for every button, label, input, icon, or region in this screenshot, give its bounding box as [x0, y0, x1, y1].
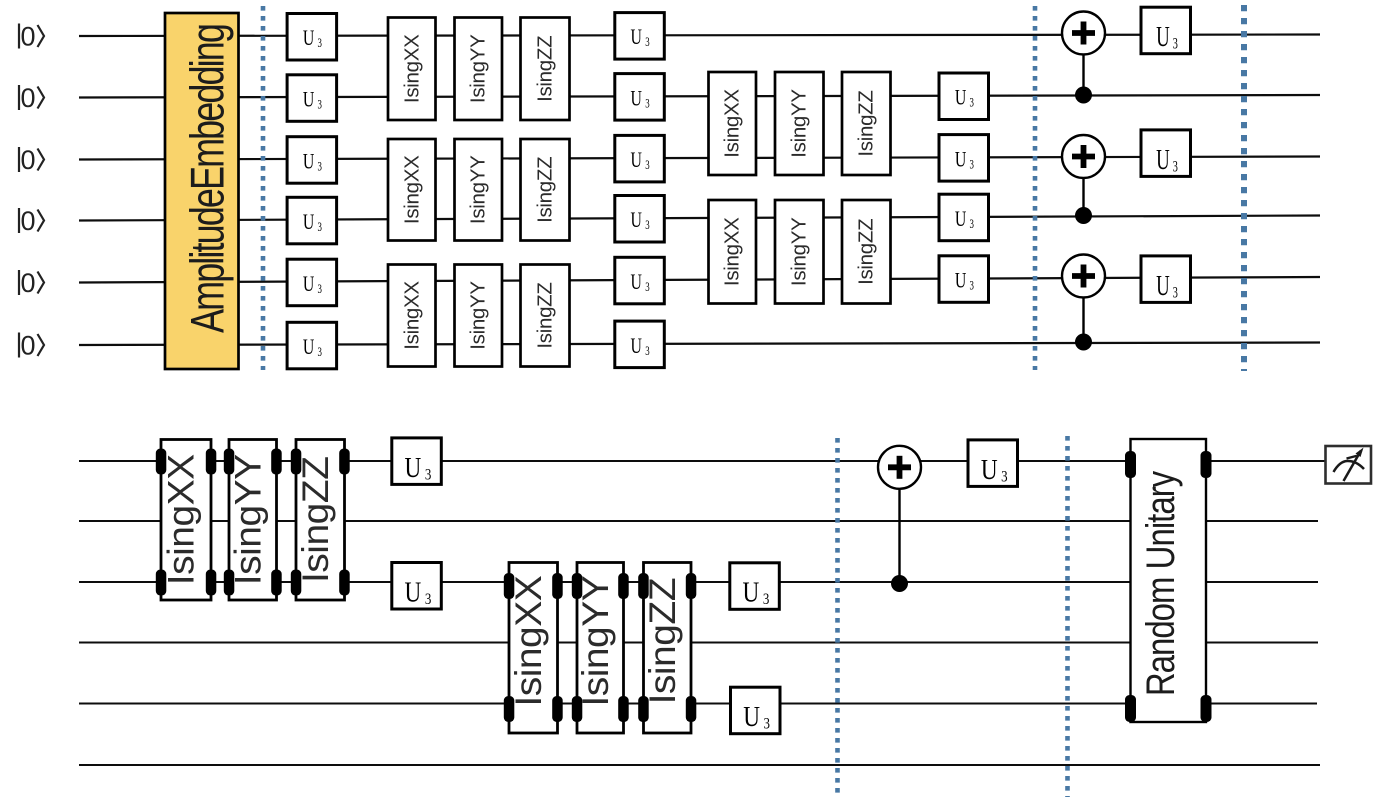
- svg-text:3: 3: [318, 160, 322, 174]
- gate IsingXX q0-q1 layer1 (top): [388, 18, 436, 121]
- svg-text:IsingXX: IsingXX: [400, 34, 423, 103]
- svg-text:U: U: [303, 211, 315, 235]
- gate U3 q2 after group1 (bottom): [392, 563, 442, 610]
- svg-text:U: U: [955, 207, 967, 231]
- wire q1 (top): [79, 95, 1320, 98]
- gate U3 q3 col3 (top): [939, 194, 989, 241]
- svg-text:IsingZZ: IsingZZ: [296, 456, 337, 583]
- svg-text:U: U: [631, 334, 643, 358]
- svg-text:IsingZZ: IsingZZ: [643, 578, 684, 705]
- wire q2 (bottom): [79, 581, 1318, 583]
- svg-text:3: 3: [318, 221, 322, 235]
- svg-text:3: 3: [645, 281, 649, 295]
- CNOT target q4 control q5 (top): [1062, 255, 1105, 351]
- svg-text:3: 3: [645, 36, 649, 50]
- barrier 1 (bottom): [835, 438, 840, 796]
- svg-text:IsingYY: IsingYY: [788, 217, 811, 286]
- svg-text:U: U: [955, 86, 967, 110]
- gate U3 q5 col1 (top): [287, 322, 337, 369]
- gate IsingZZ q0-q2 group1 (bottom): [291, 440, 350, 601]
- barrier 2 (top): [1033, 6, 1038, 370]
- svg-text:3: 3: [970, 158, 974, 172]
- gate U3 q1 col1 (top): [287, 75, 337, 122]
- wire q3 (top): [79, 216, 1320, 221]
- svg-text:U: U: [981, 453, 998, 485]
- svg-text:3: 3: [645, 97, 649, 111]
- gate U3 q4 col1 (top): [287, 259, 337, 306]
- svg-text:3: 3: [970, 279, 974, 293]
- svg-text:3: 3: [763, 591, 769, 609]
- svg-text:U: U: [303, 88, 315, 112]
- barrier 3 (top): [1241, 5, 1247, 371]
- svg-text:3: 3: [764, 715, 770, 733]
- svg-text:3: 3: [425, 591, 431, 609]
- svg-text:IsingXX: IsingXX: [721, 217, 744, 286]
- gate IsingXX q4-q5 layer1 (top): [388, 265, 436, 367]
- svg-text:U: U: [743, 701, 760, 733]
- svg-text:IsingZZ: IsingZZ: [855, 90, 878, 156]
- svg-text:IsingXX: IsingXX: [161, 454, 202, 585]
- svg-text:U: U: [405, 451, 422, 483]
- barrier 2 (bottom): [1065, 436, 1070, 797]
- wire q3 (bottom): [79, 641, 1318, 643]
- gate IsingZZ q1-q2 layer2 (top): [842, 72, 891, 175]
- svg-text:IsingZZ: IsingZZ: [534, 157, 557, 223]
- svg-text:3: 3: [645, 159, 649, 173]
- CNOT target q0 control q2 (bottom): [878, 446, 921, 592]
- svg-text:U: U: [631, 271, 643, 295]
- svg-text:U: U: [303, 27, 315, 51]
- svg-text:U: U: [631, 26, 643, 50]
- svg-text:IsingZZ: IsingZZ: [855, 219, 878, 285]
- gate IsingYY q4-q5 layer1 (top): [455, 265, 503, 367]
- wire q0 (top): [79, 35, 1320, 37]
- svg-text:0: 0: [20, 206, 35, 236]
- gate U3 q0 col2 (top): [615, 13, 665, 60]
- RandomUnitary box q0-q4 (bottom): [1125, 439, 1212, 722]
- ket |0> label qubit 0 (top): [19, 22, 44, 52]
- svg-text:3: 3: [318, 283, 322, 297]
- gate U3 q3 col1 (top): [287, 197, 337, 244]
- gate IsingXX q3-q4 layer2 (top): [709, 200, 757, 304]
- gate IsingZZ q2-q4 group2 (bottom): [638, 563, 696, 734]
- svg-text:U: U: [955, 269, 967, 293]
- svg-text:U: U: [631, 209, 643, 233]
- ket |0> label qubit 3 (top): [19, 206, 44, 236]
- svg-text:0: 0: [20, 145, 35, 175]
- gate U3 q0 after CNOT (bottom): [968, 440, 1018, 487]
- gate IsingYY q2-q4 group2 (bottom): [572, 563, 629, 734]
- gate IsingYY q1-q2 layer2 (top): [775, 72, 824, 175]
- svg-text:IsingYY: IsingYY: [467, 155, 490, 224]
- gate IsingYY q3-q4 layer2 (top): [775, 200, 824, 304]
- svg-text:3: 3: [1173, 283, 1178, 301]
- wire q5 (bottom): [79, 764, 1320, 766]
- svg-text:IsingXX: IsingXX: [400, 155, 423, 224]
- gate IsingXX q2-q4 group2 (bottom): [504, 563, 563, 734]
- svg-text:Random Unitary: Random Unitary: [1138, 470, 1183, 696]
- svg-text:U: U: [955, 148, 967, 172]
- svg-text:U: U: [1156, 21, 1170, 53]
- svg-text:3: 3: [1001, 468, 1007, 486]
- barrier 1 (top): [261, 6, 266, 370]
- svg-text:0: 0: [20, 268, 35, 298]
- svg-text:3: 3: [318, 346, 322, 360]
- gate U3 q2 col4 (top): [1141, 130, 1191, 177]
- svg-text:U: U: [303, 150, 315, 174]
- svg-text:U: U: [405, 576, 422, 608]
- svg-text:IsingYY: IsingYY: [467, 34, 490, 103]
- wire q5 (top): [79, 343, 1320, 346]
- measurement q0 (bottom): [1326, 446, 1372, 484]
- svg-text:IsingYY: IsingYY: [228, 454, 269, 585]
- svg-text:3: 3: [970, 96, 974, 110]
- ket |0> label qubit 2 (top): [19, 145, 44, 175]
- gate U3 q4 col2 (top): [615, 257, 665, 304]
- gate IsingZZ q3-q4 layer2 (top): [842, 200, 891, 304]
- AmplitudeEmbedding box (top): [165, 13, 239, 369]
- CNOT target q2 control q3 (top): [1062, 135, 1105, 224]
- svg-text:IsingXX: IsingXX: [721, 89, 744, 158]
- svg-text:3: 3: [318, 98, 322, 112]
- gate IsingYY q0-q1 layer1 (top): [455, 18, 503, 121]
- gate U3 q2 col3 (top): [939, 135, 989, 182]
- gate U3 q2 col1 (top): [287, 137, 337, 184]
- svg-text:3: 3: [318, 37, 322, 51]
- gate IsingZZ q0-q1 layer1 (top): [521, 18, 570, 121]
- ket |0> label qubit 4 (top): [19, 268, 44, 298]
- svg-text:3: 3: [425, 466, 431, 484]
- svg-text:3: 3: [645, 344, 649, 358]
- gate IsingZZ q2-q3 layer1 (top): [521, 139, 570, 241]
- svg-text:U: U: [303, 273, 315, 297]
- svg-text:IsingYY: IsingYY: [788, 89, 811, 158]
- svg-text:IsingXX: IsingXX: [509, 576, 550, 707]
- svg-text:IsingXX: IsingXX: [400, 281, 423, 350]
- gate U3 q4 col3 (top): [939, 256, 989, 302]
- svg-text:3: 3: [645, 219, 649, 233]
- svg-text:0: 0: [20, 83, 35, 113]
- svg-text:U: U: [303, 336, 315, 360]
- gate IsingYY q2-q3 layer1 (top): [455, 139, 503, 241]
- gate IsingXX q1-q2 layer2 (top): [709, 72, 757, 175]
- svg-text:3: 3: [970, 217, 974, 231]
- gate U3 q5 col2 (top): [615, 321, 665, 368]
- CNOT target q0 control q1 (top): [1062, 12, 1105, 104]
- gate U3 q2 after group2 (bottom): [730, 563, 780, 610]
- svg-text:IsingZZ: IsingZZ: [534, 282, 557, 348]
- gate U3 q4 col4 (top): [1141, 256, 1191, 303]
- svg-text:0: 0: [20, 22, 35, 52]
- gate U3 q0 after group1 (bottom): [392, 438, 442, 485]
- svg-text:3: 3: [1173, 34, 1178, 52]
- svg-text:U: U: [1156, 144, 1170, 176]
- svg-text:0: 0: [20, 331, 35, 361]
- gate IsingZZ q4-q5 layer1 (top): [521, 265, 570, 367]
- gate U3 q0 col1 (top): [287, 14, 337, 61]
- svg-text:3: 3: [1173, 157, 1178, 175]
- gate U3 q1 col2 (top): [615, 74, 665, 121]
- gate IsingXX q2-q3 layer1 (top): [388, 139, 436, 241]
- wire q4 (top): [79, 277, 1320, 283]
- svg-text:IsingYY: IsingYY: [467, 281, 490, 350]
- svg-text:U: U: [631, 87, 643, 111]
- gate IsingYY q0-q2 group1 (bottom): [224, 440, 282, 601]
- ket |0> label qubit 1 (top): [19, 83, 44, 113]
- svg-text:U: U: [743, 576, 760, 608]
- svg-text:IsingZZ: IsingZZ: [534, 36, 557, 102]
- gate IsingXX q0-q2 group1 (bottom): [156, 440, 217, 601]
- svg-text:AmplitudeEmbedding: AmplitudeEmbedding: [181, 25, 234, 333]
- ket |0> label qubit 5 (top): [19, 331, 44, 361]
- wire q2 (top): [79, 157, 1320, 160]
- wire q1 (bottom): [79, 520, 1318, 522]
- gate U3 q0 col4 (top): [1141, 7, 1191, 54]
- svg-text:U: U: [631, 149, 643, 173]
- wire q4 (bottom): [79, 702, 1317, 704]
- svg-text:U: U: [1156, 270, 1170, 302]
- gate U3 q1 col3 (top): [939, 73, 989, 120]
- gate U3 q2 col2 (top): [615, 135, 665, 182]
- gate U3 q4 after group2 (bottom): [731, 687, 781, 734]
- wire q0 (bottom): [79, 460, 1326, 462]
- gate U3 q3 col2 (top): [615, 196, 665, 243]
